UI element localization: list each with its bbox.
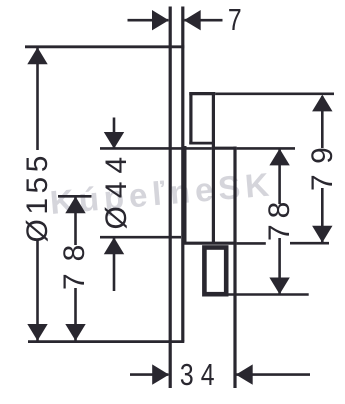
arrow 78 right bottom (points down)	[269, 278, 289, 295]
arrow 78 right top (points up)	[269, 149, 289, 166]
arrow O155 top (points up)	[27, 47, 47, 64]
svg-text:78: 78	[263, 196, 296, 241]
handle C bottom extension for 78	[228, 293, 309, 296]
plate right edge + top extension	[181, 7, 184, 342]
dim 78 right line upper	[278, 149, 281, 204]
stem A right edge / block B left edge	[212, 92, 215, 243]
O44 bottom extension	[100, 236, 181, 239]
78 left centerline extension	[58, 195, 92, 198]
dim 7 line left	[128, 19, 169, 22]
block B bottom edge + flange + extension for 79 (left part)	[184, 242, 237, 245]
arrow 34 left (points right, outside)	[152, 364, 169, 384]
dim 78 right line lower	[278, 238, 281, 294]
svg-text:34: 34	[180, 357, 222, 391]
svg-text:Ø44: Ø44	[100, 149, 133, 230]
arrow 78 left bottom (points down)	[65, 324, 85, 341]
dim O155 line lower	[36, 240, 39, 341]
block B right edge + extension down for 34	[233, 147, 236, 389]
body line behind handle	[184, 146, 187, 243]
stem A bottom edge	[189, 142, 214, 145]
extension for 79 (right part after text gap)	[290, 242, 329, 245]
stem A left edge	[189, 92, 192, 144]
dim 79 line lower	[321, 188, 324, 242]
svg-text:79: 79	[306, 137, 339, 191]
arrow 79 bottom (points down)	[312, 226, 332, 243]
arrow 34 right (points left, outside)	[236, 364, 253, 384]
dim 79 line upper	[321, 96, 324, 148]
dim 34 line right	[236, 373, 310, 376]
dim O44 line upper	[113, 118, 116, 150]
plate left edge + extensions	[169, 7, 172, 389]
plate bottom cap + bottom extension	[28, 340, 184, 343]
svg-text:78: 78	[58, 233, 91, 290]
dim 78 left line upper	[74, 197, 77, 245]
dim O44 line lower	[113, 238, 116, 291]
stem A top edge + extension for 79	[189, 92, 215, 95]
dim 78 left line lower	[74, 288, 77, 341]
arrow 7 right (points left)	[184, 10, 201, 30]
svg-text:Ø155: Ø155	[21, 151, 54, 242]
arrow O155 bottom (points down)	[27, 324, 47, 341]
dim 7 line right	[184, 19, 222, 22]
block B top edge + O44 left extension + 78 right extension	[100, 147, 212, 150]
dim O155 line upper	[36, 47, 39, 150]
arrow 7 left (points right)	[152, 10, 169, 30]
dim 34 line left	[130, 373, 168, 376]
arrow O44 top (points down, above line)	[104, 132, 124, 149]
arrow 78 left top (points up)	[65, 197, 85, 214]
plate top cap + O155 top extension	[25, 45, 184, 48]
handle C outline	[204, 248, 226, 295]
svg-text:7: 7	[228, 2, 244, 36]
arrow O44 bottom (points up, below line)	[104, 237, 124, 254]
arrow 79 top (points up)	[312, 95, 332, 112]
